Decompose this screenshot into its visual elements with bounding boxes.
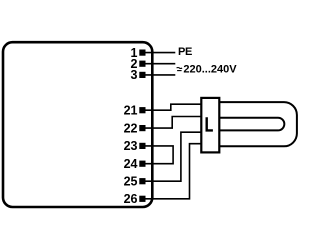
svg-text:PE: PE: [178, 46, 192, 58]
svg-text:23: 23: [124, 139, 138, 153]
terminal square pin 3: [139, 72, 145, 78]
lamp label L: [206, 117, 213, 131]
wire jumper pin23-pin24: [145, 146, 173, 164]
wire pin3 to mains: [145, 74, 175, 76]
terminal square pin 23: [139, 143, 145, 149]
lamp tube inner fold: [219, 118, 284, 131]
terminal square pin 25: [139, 178, 145, 184]
wire pin26 to lamp pin4: [145, 144, 202, 199]
terminal square pin 24: [139, 161, 145, 167]
wire pin2 to mains: [145, 63, 175, 65]
terminal square pin 22: [139, 125, 145, 131]
svg-text:3: 3: [131, 68, 138, 82]
svg-text:22: 22: [124, 121, 138, 135]
svg-text:220...240V: 220...240V: [183, 64, 237, 76]
terminal square pin 2: [139, 61, 145, 67]
wire pin22 to lamp pin2: [145, 117, 202, 129]
wire pin21 to lamp pin1: [145, 104, 202, 110]
svg-text:25: 25: [124, 175, 138, 189]
terminal square pin 26: [139, 196, 145, 202]
ballast outline (control gear box): [3, 42, 152, 207]
label AC symbol: [177, 68, 183, 69]
wire pin25 to lamp pin3: [145, 132, 202, 181]
wire pin1 to PE: [145, 52, 175, 54]
lamp tube outer envelope: [219, 102, 297, 146]
terminal square pin 1: [139, 50, 145, 56]
terminal square pin 21: [139, 107, 145, 113]
svg-text:24: 24: [124, 157, 138, 171]
lamp base (socket): [201, 98, 219, 152]
svg-text:26: 26: [124, 192, 138, 206]
svg-text:21: 21: [124, 104, 138, 118]
